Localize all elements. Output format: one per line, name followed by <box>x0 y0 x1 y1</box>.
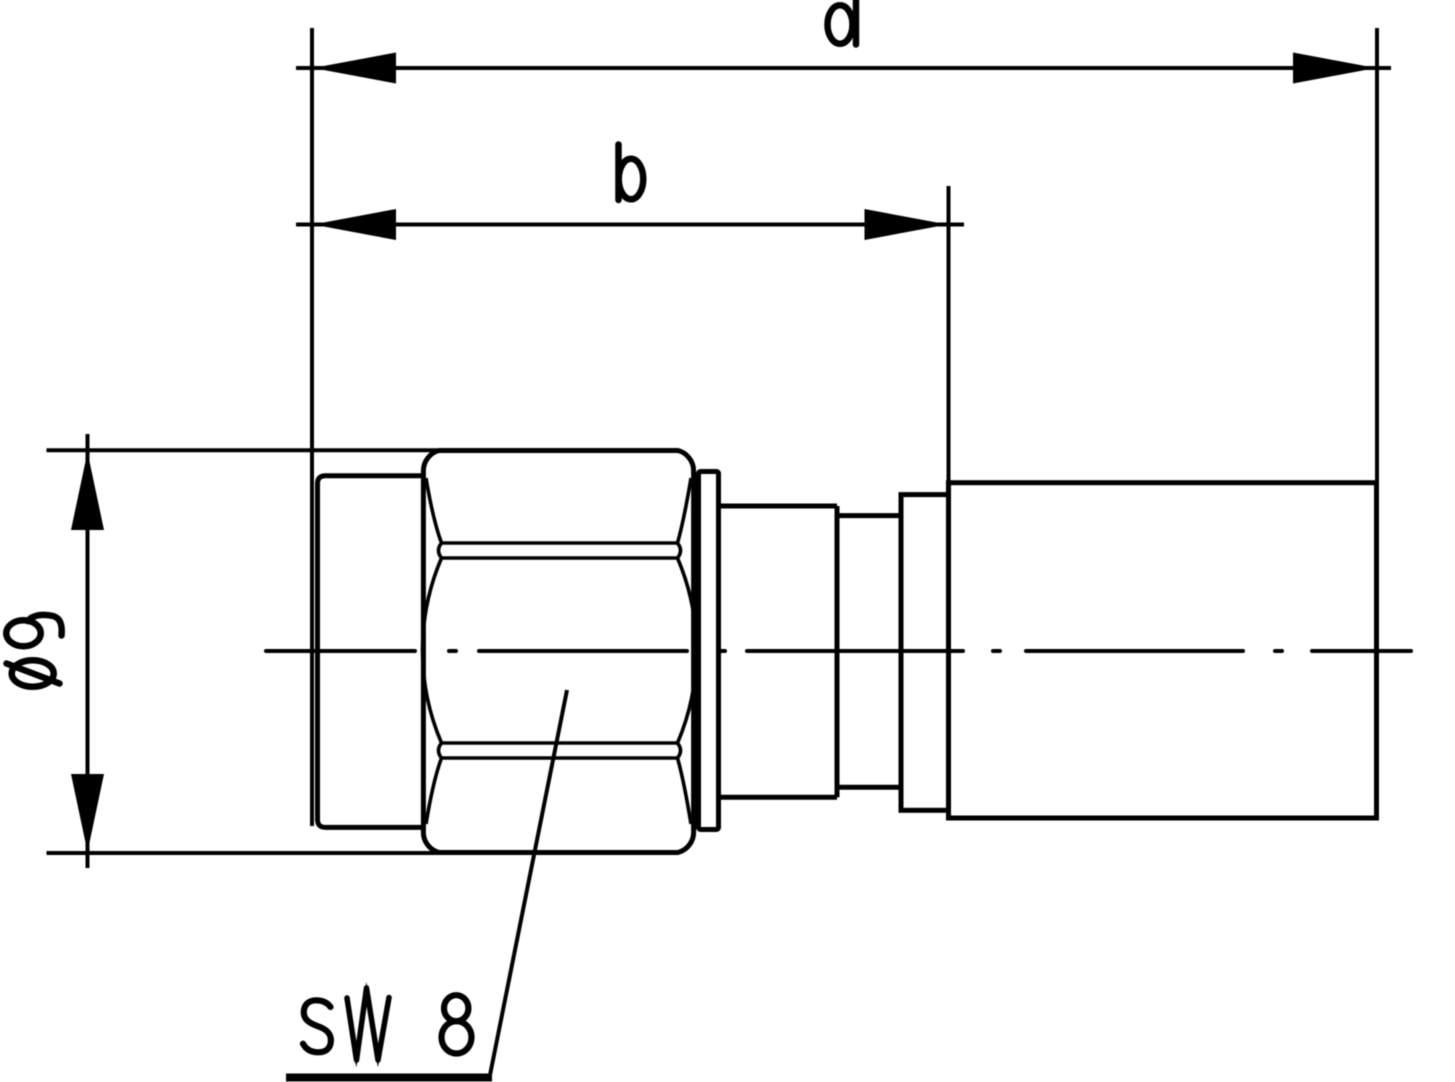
extension line top (hex A/F, for dim dia 9) <box>47 448 441 452</box>
hex vertex arcs <box>439 543 442 558</box>
glyph 8 <box>444 995 468 1021</box>
hex middle face chamfer arc left <box>423 558 442 743</box>
glyph W <box>347 988 389 1060</box>
extension line middle (for dim b) <box>947 186 951 484</box>
hex chamfer edge lines lower <box>442 741 678 745</box>
hex corner chamfer curves <box>426 478 442 543</box>
arrowhead a right <box>1293 53 1376 84</box>
arrowhead b right <box>865 209 948 240</box>
front sleeve rectangle <box>318 476 425 828</box>
washer <box>699 472 719 830</box>
label a <box>828 0 857 45</box>
dimension line dia 9 <box>86 434 90 868</box>
arrowhead dia9 top <box>71 452 104 530</box>
centerline <box>266 649 1411 653</box>
arrowhead dia9 bottom <box>71 774 104 852</box>
arrowhead a left <box>313 53 396 84</box>
extension line right (for dim a) <box>1375 28 1379 484</box>
collar section outline <box>901 495 949 811</box>
hex nut silhouette SW8 <box>423 451 693 853</box>
dimension line a <box>296 66 1391 70</box>
leader underline <box>286 1074 492 1082</box>
neck section outline <box>837 516 901 788</box>
rear body rectangle <box>949 483 1377 818</box>
extension line bottom (for dim dia 9) <box>47 851 441 855</box>
extension line left (front face, for dims a and b) <box>310 28 314 826</box>
hex chamfer edge lines upper <box>423 478 697 824</box>
label b <box>619 145 644 201</box>
arrowhead b left <box>313 209 396 240</box>
glyph S <box>303 1000 331 1052</box>
leader line SW 8 <box>490 690 567 1075</box>
dimension line b <box>296 223 964 227</box>
hex middle face chamfer arc right <box>678 558 697 743</box>
label SW 8 <box>303 982 472 1067</box>
label dia 9 (rotated) <box>6 615 61 687</box>
cylinder section outline <box>719 506 838 797</box>
